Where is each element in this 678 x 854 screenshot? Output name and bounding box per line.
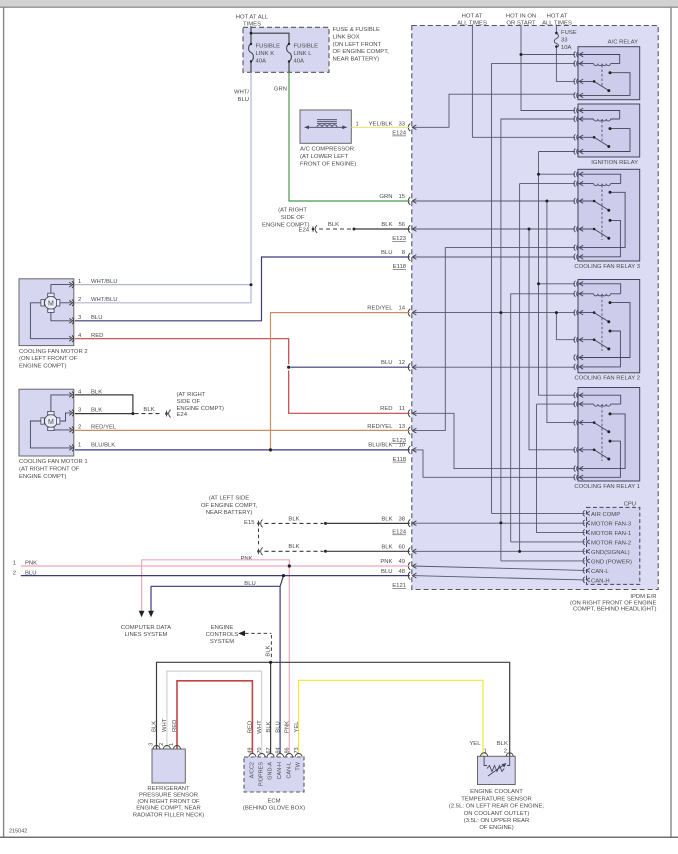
svg-text:(BEHIND GLOVE BOX): (BEHIND GLOVE BOX) — [243, 805, 305, 811]
svg-text:BLK: BLK — [266, 721, 272, 732]
svg-text:2: 2 — [504, 748, 507, 754]
svg-text:BLK: BLK — [288, 544, 299, 550]
svg-text:LINES SYSTEM: LINES SYSTEM — [125, 632, 168, 638]
svg-text:40A: 40A — [256, 58, 267, 64]
svg-text:GND (POWER): GND (POWER) — [591, 559, 632, 565]
svg-text:P/DPRES: P/DPRES — [259, 762, 265, 786]
svg-text:(AT LEFT SIDE: (AT LEFT SIDE — [209, 495, 249, 501]
svg-text:IGNITION RELAY: IGNITION RELAY — [591, 160, 638, 166]
svg-text:E123: E123 — [392, 236, 406, 242]
svg-text:11: 11 — [399, 406, 405, 412]
svg-text:ENGINE COMPT, NEAR: ENGINE COMPT, NEAR — [136, 806, 200, 812]
svg-text:CONTROLS: CONTROLS — [206, 632, 239, 638]
svg-text:YEL: YEL — [294, 721, 300, 733]
svg-text:2: 2 — [13, 570, 16, 576]
svg-text:COMPT, BEHIND HEADLIGHT): COMPT, BEHIND HEADLIGHT) — [573, 607, 656, 613]
svg-text:GND-A: GND-A — [268, 762, 274, 780]
svg-text:COMPUTER DATA: COMPUTER DATA — [121, 625, 171, 631]
svg-text:ENGINE COMPT): ENGINE COMPT) — [19, 474, 66, 480]
svg-text:REFRIGERANT: REFRIGERANT — [147, 786, 190, 792]
svg-text:38: 38 — [398, 516, 405, 522]
svg-text:FRONT OF ENGINE): FRONT OF ENGINE) — [300, 161, 356, 167]
svg-text:LINK BOX: LINK BOX — [333, 34, 360, 40]
svg-text:ALL TIMES: ALL TIMES — [457, 21, 487, 27]
svg-text:CAN-L: CAN-L — [591, 569, 609, 575]
svg-text:E15: E15 — [244, 520, 255, 526]
svg-text:BLK: BLK — [143, 407, 154, 413]
svg-text:BLK: BLK — [381, 516, 392, 522]
svg-text:COOLING FAN MOTOR 1: COOLING FAN MOTOR 1 — [19, 459, 88, 465]
svg-text:PNK: PNK — [380, 559, 392, 565]
svg-text:49: 49 — [398, 559, 405, 565]
svg-text:COOLING FAN RELAY 3: COOLING FAN RELAY 3 — [574, 264, 640, 270]
svg-text:2: 2 — [159, 743, 165, 746]
svg-text:BLU: BLU — [275, 721, 281, 732]
svg-text:GRN: GRN — [274, 87, 287, 93]
svg-text:70: 70 — [257, 747, 263, 753]
svg-text:SYSTEM: SYSTEM — [210, 639, 234, 645]
svg-text:SIDE OF: SIDE OF — [177, 399, 201, 405]
svg-text:IPDM E/R: IPDM E/R — [630, 594, 656, 600]
svg-text:(ON LEFT FRONT: (ON LEFT FRONT — [333, 42, 382, 48]
svg-text:NEAR BATTERY): NEAR BATTERY) — [206, 510, 253, 516]
svg-text:67: 67 — [266, 747, 272, 753]
svg-text:BLK: BLK — [91, 407, 102, 413]
svg-text:TW: TW — [296, 761, 302, 770]
svg-text:CAN-H: CAN-H — [277, 762, 283, 779]
svg-text:14: 14 — [398, 306, 405, 312]
svg-text:E118: E118 — [393, 264, 407, 270]
svg-text:LINK K: LINK K — [256, 51, 275, 57]
svg-text:MOTOR FAN-1: MOTOR FAN-1 — [591, 531, 631, 537]
svg-text:13: 13 — [398, 424, 405, 430]
svg-text:GRN: GRN — [379, 194, 392, 200]
svg-text:(ON RIGHT FRONT OF: (ON RIGHT FRONT OF — [137, 799, 200, 805]
svg-text:A/CC2: A/CC2 — [249, 762, 255, 778]
svg-text:BLU: BLU — [244, 581, 255, 587]
svg-text:60: 60 — [398, 545, 405, 551]
svg-text:ALL TIMES: ALL TIMES — [542, 21, 572, 27]
svg-text:BLU: BLU — [381, 360, 392, 366]
svg-text:COOLING FAN MOTOR 2: COOLING FAN MOTOR 2 — [19, 349, 88, 355]
svg-text:(2.5L: ON LEFT REAR OF ENGINE,: (2.5L: ON LEFT REAR OF ENGINE, — [449, 804, 545, 810]
svg-text:15: 15 — [398, 194, 405, 200]
svg-text:94: 94 — [275, 747, 281, 753]
svg-text:WHT: WHT — [162, 718, 168, 732]
svg-text:BLK: BLK — [152, 721, 158, 732]
svg-text:WHT: WHT — [257, 720, 263, 734]
svg-text:BLU/BLK: BLU/BLK — [368, 443, 392, 449]
svg-text:HOT IN ON: HOT IN ON — [506, 14, 536, 20]
svg-text:OF ENGINE): OF ENGINE) — [479, 825, 513, 831]
svg-text:AIR COMP: AIR COMP — [591, 512, 620, 518]
svg-text:BLK: BLK — [381, 545, 392, 551]
svg-text:E124: E124 — [392, 530, 406, 536]
svg-text:CPU: CPU — [624, 502, 636, 508]
svg-text:48: 48 — [398, 569, 405, 575]
svg-text:YEL/BLK: YEL/BLK — [369, 122, 393, 128]
svg-text:A/C RELAY: A/C RELAY — [608, 40, 638, 46]
svg-text:10A: 10A — [561, 45, 572, 51]
svg-text:RED: RED — [380, 406, 392, 412]
svg-text:2: 2 — [78, 424, 81, 430]
svg-text:(ON RIGHT FRONT OF ENGINE: (ON RIGHT FRONT OF ENGINE — [570, 600, 657, 606]
svg-text:TEMPERATURE SENSOR: TEMPERATURE SENSOR — [461, 796, 532, 802]
svg-text:NEAR BATTERY): NEAR BATTERY) — [333, 57, 380, 63]
svg-text:M: M — [48, 419, 54, 426]
svg-text:12: 12 — [398, 360, 405, 366]
svg-text:OR START: OR START — [506, 21, 536, 27]
svg-text:ECM: ECM — [267, 798, 280, 804]
svg-text:FUSE: FUSE — [561, 30, 577, 36]
svg-text:COOLING FAN RELAY 1: COOLING FAN RELAY 1 — [574, 484, 640, 490]
svg-text:BLU/BLK: BLU/BLK — [91, 442, 115, 448]
svg-text:BLK: BLK — [288, 516, 299, 522]
svg-text:(AT RIGHT FRONT OF: (AT RIGHT FRONT OF — [19, 467, 80, 473]
svg-text:215042: 215042 — [9, 829, 27, 835]
svg-text:BLU: BLU — [381, 569, 392, 575]
svg-text:PNK: PNK — [25, 560, 37, 566]
svg-text:TIMES: TIMES — [243, 22, 261, 28]
svg-text:FUSE & FUSIBLE: FUSE & FUSIBLE — [333, 27, 381, 33]
svg-text:YEL: YEL — [469, 741, 481, 747]
svg-text:PNK: PNK — [285, 721, 291, 733]
svg-text:BLK: BLK — [328, 222, 339, 228]
svg-text:PRESSURE SENSOR: PRESSURE SENSOR — [139, 793, 198, 799]
svg-text:(AT RIGHT: (AT RIGHT — [278, 208, 307, 214]
svg-text:ON COOLANT OUTLET): ON COOLANT OUTLET) — [464, 811, 530, 817]
svg-text:56: 56 — [398, 222, 405, 228]
svg-text:ENGINE COOLANT: ENGINE COOLANT — [470, 789, 523, 795]
svg-text:10: 10 — [398, 443, 405, 449]
svg-text:E118: E118 — [393, 457, 407, 463]
svg-text:RED: RED — [248, 721, 254, 733]
svg-text:33: 33 — [398, 122, 405, 128]
svg-text:E121: E121 — [392, 583, 406, 589]
svg-text:MOTOR FAN-3: MOTOR FAN-3 — [591, 521, 632, 527]
svg-text:RED/YEL: RED/YEL — [91, 424, 117, 430]
svg-text:ENGINE COMPT): ENGINE COMPT) — [19, 364, 66, 370]
svg-text:RADIATOR FILLER NECK): RADIATOR FILLER NECK) — [133, 812, 205, 818]
svg-text:SIDE OF: SIDE OF — [281, 215, 305, 221]
svg-text:OF ENGINE COMPT,: OF ENGINE COMPT, — [333, 49, 390, 55]
svg-text:BLU: BLU — [381, 250, 392, 256]
svg-text:ENGINE COMPT): ENGINE COMPT) — [177, 406, 224, 412]
svg-text:RED: RED — [172, 720, 178, 732]
svg-text:BLK: BLK — [266, 645, 272, 656]
svg-text:HOT AT: HOT AT — [547, 14, 568, 20]
svg-text:COOLING FAN RELAY 2: COOLING FAN RELAY 2 — [574, 376, 640, 382]
svg-text:40A: 40A — [294, 58, 305, 64]
svg-text:CAN-L: CAN-L — [286, 762, 292, 779]
svg-text:BLU: BLU — [238, 97, 249, 103]
svg-text:E24: E24 — [177, 412, 188, 418]
svg-text:E124: E124 — [392, 131, 406, 137]
svg-text:HOT AT ALL: HOT AT ALL — [236, 15, 269, 21]
svg-text:WHT/: WHT/ — [234, 90, 249, 96]
svg-text:1: 1 — [169, 743, 175, 746]
svg-text:73: 73 — [294, 747, 300, 753]
svg-text:49: 49 — [248, 747, 254, 753]
svg-text:(AT RIGHT: (AT RIGHT — [177, 392, 206, 398]
svg-text:(3.5L: ON UPPER REAR: (3.5L: ON UPPER REAR — [464, 818, 529, 824]
svg-text:BLK: BLK — [381, 222, 392, 228]
svg-text:FUSIBLE: FUSIBLE — [294, 44, 319, 50]
svg-text:1: 1 — [13, 560, 16, 566]
svg-text:(ON LEFT FRONT OF: (ON LEFT FRONT OF — [19, 356, 78, 362]
svg-text:MOTOR FAN-2: MOTOR FAN-2 — [591, 540, 631, 546]
svg-text:OF ENGINE COMPT,: OF ENGINE COMPT, — [201, 503, 258, 509]
svg-text:(AT LOWER LEFT: (AT LOWER LEFT — [300, 154, 349, 160]
svg-text:LINK L: LINK L — [294, 51, 313, 57]
svg-text:ENGINE: ENGINE — [211, 625, 234, 631]
svg-text:CAN-H: CAN-H — [591, 578, 610, 584]
svg-text:HOT AT: HOT AT — [462, 14, 483, 20]
svg-text:1: 1 — [78, 442, 81, 448]
svg-text:86: 86 — [285, 747, 291, 753]
svg-text:1: 1 — [356, 122, 359, 128]
svg-text:GND(SIGNAL): GND(SIGNAL) — [591, 550, 630, 556]
svg-text:BLK: BLK — [497, 741, 508, 747]
svg-text:E24: E24 — [299, 228, 310, 234]
svg-text:1: 1 — [484, 748, 487, 754]
svg-text:RED/YEL: RED/YEL — [367, 424, 393, 430]
svg-text:33: 33 — [561, 38, 568, 44]
svg-text:FUSIBLE: FUSIBLE — [256, 44, 281, 50]
svg-text:A/C COMPRESSOR: A/C COMPRESSOR — [300, 147, 354, 153]
svg-text:RED/YEL: RED/YEL — [367, 306, 393, 312]
svg-text:M: M — [48, 301, 54, 308]
